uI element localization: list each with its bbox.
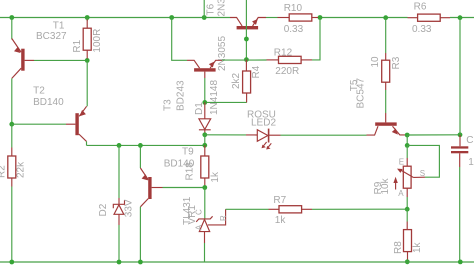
- transistor T4 base bar: [194, 68, 216, 71]
- svg-text:2k2: 2k2: [231, 72, 242, 89]
- trimmer R9 body: [403, 166, 411, 188]
- transistor T4 base pin: [204, 72, 206, 78]
- wire top rail segment R10 to R6: [318, 17, 408, 19]
- svg-text:1k: 1k: [275, 215, 287, 226]
- svg-text:R1: R1: [72, 39, 83, 52]
- svg-text:R10: R10: [284, 3, 303, 14]
- resistor R18 pin lower: [204, 178, 206, 188]
- transistor T9 base bar: [148, 177, 151, 199]
- resistor R3 pin upper: [385, 53, 387, 60]
- svg-text:R7: R7: [273, 195, 286, 206]
- resistor R8 pin lower: [407, 252, 409, 260]
- svg-text:0.33: 0.33: [412, 24, 432, 35]
- transistor T5 emitter pin: [393, 126, 406, 135]
- trimmer R9 wiper arrow: [401, 170, 414, 177]
- svg-text:BD140: BD140: [33, 97, 64, 108]
- svg-text:22k: 22k: [16, 161, 27, 178]
- wire T4 base to node: [204, 78, 206, 102]
- wire T1 base to R1 bottom: [34, 59, 87, 61]
- svg-text:R4: R4: [251, 65, 262, 78]
- resistor R6 body: [418, 14, 441, 21]
- transistor T6 emitter arrow: [252, 19, 258, 25]
- svg-text:1k: 1k: [210, 171, 221, 183]
- svg-text:LED2: LED2: [251, 118, 276, 129]
- resistor R6 pin right: [440, 17, 450, 19]
- node cap top: [458, 132, 463, 137]
- wire bottom rail: [0, 261, 474, 263]
- wire top rail right segment: [450, 17, 474, 19]
- node top rail / R10-R12 branch: [318, 15, 323, 20]
- resistor R1 pin lower: [86, 50, 88, 58]
- capacitor C plate 1: [451, 146, 468, 148]
- wire R2 top: [11, 124, 13, 147]
- node R18 bottom / T9 base / TL431: [202, 185, 207, 190]
- node top rail / T1 emitter: [9, 15, 14, 20]
- node T6 base: [244, 37, 249, 42]
- node bottom rail / R2: [9, 260, 14, 265]
- node row y145 / R18 top: [202, 143, 207, 148]
- svg-text:D1: D1: [194, 102, 205, 115]
- diode D2 triangle: [114, 205, 124, 215]
- capacitor C plate 2: [451, 151, 468, 153]
- svg-text:R2: R2: [0, 165, 8, 178]
- svg-text:100R: 100R: [92, 29, 103, 53]
- resistor R3 body: [382, 60, 390, 82]
- svg-text:10k: 10k: [380, 177, 391, 194]
- svg-text:E: E: [399, 157, 404, 166]
- resistor R12 pin left: [267, 59, 279, 61]
- wire T1 emitter from rail: [11, 18, 13, 40]
- wire right column top: [459, 18, 461, 135]
- wire T2 collector corner: [86, 141, 88, 145]
- transistor T6 base bar: [237, 26, 259, 29]
- led LED2 cathode bar: [268, 129, 270, 143]
- wire R8 to bottom rail: [407, 260, 409, 263]
- svg-text:BC547: BC547: [356, 77, 367, 108]
- trimmer R9 direction arrow: [395, 183, 397, 190]
- wire D2 cathode from node: [118, 145, 120, 198]
- wire node row y145: [87, 144, 205, 146]
- node R4 top / R12 row: [244, 57, 249, 62]
- node T1 base / R1 / T2 emitter: [85, 58, 90, 63]
- svg-text:1k: 1k: [412, 241, 423, 253]
- node T1 collector / T2 base / R2: [9, 122, 14, 127]
- diode D2 anode pin: [118, 214, 120, 225]
- transistor T1 base pin: [25, 59, 34, 61]
- transistor T5 collector pin: [367, 126, 379, 135]
- svg-text:BD243: BD243: [176, 80, 187, 111]
- resistor R18 pin upper: [204, 145, 206, 156]
- node T5 emitter / cap row: [405, 133, 410, 138]
- wire T5 row to cap: [407, 134, 460, 136]
- svg-text:T9: T9: [182, 147, 194, 158]
- wire top rail mid segment: [266, 17, 278, 19]
- resistor R18 body: [201, 156, 209, 178]
- resistor R10 pin right: [312, 17, 318, 19]
- diode D1 anode pin: [204, 102, 206, 118]
- resistor R6 pin left: [408, 17, 418, 19]
- svg-text:10: 10: [468, 157, 474, 168]
- wire R3 top: [385, 18, 387, 53]
- led LED2 anode pin: [246, 134, 257, 136]
- diode D2 zener bar: [113, 200, 124, 208]
- node D2 top: [117, 143, 122, 148]
- svg-text:A: A: [398, 189, 404, 198]
- svg-text:R18: R18: [184, 162, 195, 181]
- node T4 base / R4 bottom / D1 anode: [202, 100, 207, 105]
- svg-text:1N4148: 1N4148: [209, 80, 220, 115]
- wire R12 to rail branch: [312, 18, 320, 60]
- transistor T4 collector pin: [187, 60, 200, 68]
- transistor T2 collector pin: [79, 134, 87, 141]
- wire T2 base horizontal: [12, 123, 66, 125]
- transistor T2 emitter pin: [79, 106, 86, 116]
- resistor R1 body: [83, 28, 91, 50]
- node top rail / R3 branch: [383, 15, 388, 20]
- svg-text:R8: R8: [393, 241, 404, 254]
- ic VR1 TL431 cathode bar: [196, 216, 212, 222]
- transistor T1 emitter arrow: [14, 47, 21, 53]
- wire R9 bottom to node: [406, 197, 408, 209]
- wire top rail left segment: [0, 17, 230, 19]
- resistor R10 body: [289, 14, 312, 21]
- transistor T5 emitter arrow: [392, 129, 398, 135]
- resistor R3 pin lower: [385, 82, 387, 90]
- wire TL431 cathode: [204, 188, 206, 219]
- wire R9 top pin green: [406, 145, 408, 158]
- svg-text:2N3055: 2N3055: [217, 0, 228, 17]
- svg-text:T3: T3: [163, 99, 174, 111]
- wire T4 emitter to R12: [222, 59, 267, 61]
- svg-text:T6: T6: [206, 3, 217, 15]
- svg-text:R12: R12: [274, 47, 293, 58]
- diode D1 cathode pin: [204, 130, 206, 135]
- wire wiper loop: [407, 145, 439, 177]
- resistor R12 body: [279, 56, 302, 63]
- wire D1 node to LED: [205, 134, 246, 136]
- node R8 bottom: [405, 259, 410, 264]
- resistor R2 pin upper: [11, 148, 13, 157]
- diode D1 cathode bar: [199, 129, 211, 131]
- wire R2 to bottom rail: [11, 187, 13, 263]
- wire T9 collector to bottom rail: [139, 207, 141, 262]
- ic VR1 TL431 triangle: [199, 220, 209, 232]
- wire T9 base to R18 node: [163, 187, 205, 189]
- resistor R7 body: [279, 206, 302, 213]
- transistor T2 emitter arrow: [80, 110, 86, 116]
- transistor T5 base bar: [375, 122, 397, 125]
- node top rail / wire up: [202, 15, 207, 20]
- resistor R4 body: [243, 71, 251, 93]
- wire D2 to bottom rail: [118, 225, 120, 262]
- wire T2 emitter from node: [86, 60, 88, 106]
- resistor R4 pin upper: [245, 60, 247, 71]
- transistor T5 base pin: [385, 113, 387, 122]
- svg-text:A: A: [195, 224, 204, 230]
- wire R4 bottom horizontal: [207, 101, 247, 103]
- svg-text:T2: T2: [33, 85, 45, 96]
- svg-text:C2: C2: [466, 135, 474, 146]
- svg-text:R3: R3: [391, 56, 402, 69]
- svg-text:33V: 33V: [123, 199, 134, 217]
- node R9 / R7 / R8: [405, 207, 410, 212]
- ic VR1 TL431 ref pin: [208, 209, 226, 225]
- wire dot1-dot2: [406, 135, 408, 145]
- capacitor C pin lower: [459, 153, 461, 167]
- wire up from top rail: [203, 0, 205, 18]
- transistor T4 emitter arrow: [209, 62, 215, 68]
- resistor R1 pin upper: [86, 20, 88, 29]
- wire T6 base vertical: [245, 0, 247, 60]
- resistor R7 pin left: [269, 208, 280, 210]
- wire R8 top: [406, 209, 408, 221]
- node top rail / R1 top: [85, 15, 90, 20]
- wire cap to bottom rail: [459, 167, 461, 262]
- capacitor C pin upper: [459, 135, 461, 147]
- trimmer R9 wiper pin: [414, 176, 425, 178]
- svg-text:C: C: [195, 209, 204, 215]
- led LED2 cathode pin: [269, 134, 281, 136]
- resistor R8 body: [404, 230, 412, 252]
- node bottom rail / D2: [117, 260, 122, 265]
- svg-text:BC327: BC327: [36, 31, 67, 42]
- node top rail / T4 collector branch: [169, 15, 174, 20]
- svg-text:0.33: 0.33: [284, 24, 304, 35]
- transistor T9 emitter pin: [140, 168, 148, 180]
- transistor T1 base bar: [21, 49, 24, 71]
- trimmer R9 pin lower: [406, 188, 408, 197]
- resistor R7 pin right: [302, 208, 312, 210]
- diode D2 cathode pin: [118, 198, 120, 204]
- node bottom rail / T9: [138, 260, 143, 265]
- resistor R4 pin lower: [246, 93, 248, 102]
- ic VR1 TL431 anode pin: [204, 232, 206, 243]
- resistor R8 pin upper: [406, 222, 408, 230]
- resistor R12 pin right: [301, 59, 312, 61]
- led LED2 triangle: [257, 130, 268, 142]
- led LED2 light arrow 2: [268, 143, 271, 147]
- svg-text:R: R: [219, 215, 228, 221]
- wire R7 to pot node: [312, 208, 407, 210]
- svg-text:220R: 220R: [275, 66, 299, 77]
- wire TL431 anode to bottom rail: [204, 243, 206, 262]
- wire R3 to T5 base: [385, 90, 387, 113]
- node wiper branch: [405, 143, 410, 148]
- svg-text:R6: R6: [414, 1, 427, 12]
- diode D1 triangle: [199, 119, 211, 130]
- node D1 cathode / LED row: [202, 132, 207, 137]
- transistor T9 collector pin: [140, 199, 148, 207]
- wire T4 collector branch: [172, 18, 187, 61]
- node bottom rail / cap: [458, 260, 463, 265]
- transistor T9 base pin: [152, 187, 163, 189]
- transistor T6 collector pin: [230, 18, 242, 27]
- trimmer R9 pin upper: [406, 158, 408, 166]
- transistor T4 emitter pin: [210, 60, 222, 68]
- transistor T6 emitter pin: [253, 18, 266, 27]
- wire TL431 ref to R7: [226, 208, 269, 210]
- transistor T2 base bar: [75, 113, 78, 135]
- svg-text:2N3055: 2N3055: [217, 36, 228, 71]
- resistor R2 pin lower: [11, 178, 13, 187]
- wire D1 node down: [204, 135, 206, 146]
- resistor R10 pin left: [278, 17, 290, 19]
- transistor T9 emitter arrow: [142, 174, 148, 180]
- wire LED to T5: [281, 134, 367, 136]
- wire T1 collector down: [11, 78, 13, 124]
- led LED2 light arrow 1: [264, 142, 267, 146]
- svg-text:10: 10: [370, 56, 381, 68]
- resistor R2 body: [8, 156, 16, 178]
- node T9 emitter top: [138, 143, 143, 148]
- svg-text:D2: D2: [98, 203, 109, 216]
- transistor T1 collector pin: [12, 68, 21, 78]
- node top rail / right column branch: [458, 15, 463, 20]
- wire R1 top pin: [86, 18, 88, 22]
- transistor T2 base pin: [66, 123, 75, 125]
- wire T9 emitter from node: [139, 145, 141, 168]
- transistor T1 emitter pin: [12, 39, 21, 53]
